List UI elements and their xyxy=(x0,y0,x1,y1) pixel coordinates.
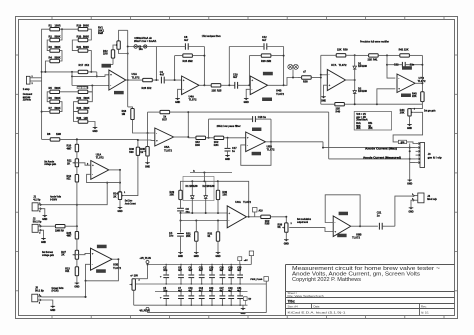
ground J5 xyxy=(50,304,55,312)
svg-text:10u: 10u xyxy=(163,270,168,272)
wire J2 pin2 to ground xyxy=(42,230,44,236)
svg-text:22K R41: 22K R41 xyxy=(368,59,379,62)
svg-text:+V8_PLUS: +V8_PLUS xyxy=(140,258,152,260)
svg-text:C22: C22 xyxy=(394,64,399,67)
capacitor C23 xyxy=(209,288,215,305)
resistor R23b input xyxy=(128,78,159,90)
svg-text:R26 2M2: R26 2M2 xyxy=(261,60,272,63)
text D1 label xyxy=(358,62,367,68)
ground cap bank xyxy=(241,305,246,315)
svg-text:+: + xyxy=(329,83,331,87)
wire bank2 top rail xyxy=(72,85,108,87)
svg-text:A10: A10 xyxy=(259,210,264,213)
svg-text:500K: 500K xyxy=(83,25,89,28)
wire U5A feedback right vertical xyxy=(187,111,189,138)
svg-text:Anode Current (Max): Anode Current (Max) xyxy=(365,148,397,151)
svg-text:Anode Current (Measured): Anode Current (Measured) xyxy=(363,156,401,159)
capacitor C26 xyxy=(220,265,226,285)
wire R43 to pot R44 xyxy=(410,102,423,109)
resistor R1 xyxy=(49,25,61,31)
svg-text:4u7: 4u7 xyxy=(160,74,165,77)
svg-text:1 amp: 1 amp xyxy=(23,88,30,91)
ground R14 xyxy=(117,200,122,214)
svg-text:File: Valve Testbench.sch: File: Valve Testbench.sch xyxy=(288,294,325,298)
diode D1 log xyxy=(191,181,195,213)
svg-text:+: + xyxy=(228,211,230,215)
resistor R23 xyxy=(77,107,90,113)
connector J6 current input xyxy=(26,76,41,85)
svg-text:+: + xyxy=(156,138,158,142)
resistor R16 xyxy=(122,109,135,120)
svg-text:GND: GND xyxy=(407,184,412,186)
svg-text:GND: GND xyxy=(117,211,122,213)
wire cap bank rail A xyxy=(148,264,252,265)
wire flag to RV5 top xyxy=(134,278,148,280)
ground R36 xyxy=(284,232,289,245)
wire divider to J1 line xyxy=(76,182,78,227)
capacitor C31 xyxy=(237,288,243,305)
svg-text:GND: GND xyxy=(407,128,412,130)
text J2 label xyxy=(33,218,42,224)
wire C21 to J4 xyxy=(395,196,415,226)
svg-text:1: 1 xyxy=(124,192,126,194)
text D2 label xyxy=(358,87,367,93)
wire bottom rail rectifier xyxy=(354,103,423,105)
power flag rail A xyxy=(249,251,253,265)
net flag 17Hz pair xyxy=(288,64,299,78)
resistor R22 xyxy=(77,97,90,103)
resistor R2 xyxy=(49,35,61,41)
capacitor C16 feedback xyxy=(209,116,272,122)
wire bank2 R7 to left rail xyxy=(42,111,50,113)
title block text xyxy=(288,266,441,314)
resistor R43 xyxy=(412,92,424,102)
svg-text:0-300V: 0-300V xyxy=(50,198,57,201)
wire R30 bottom xyxy=(217,200,219,213)
capacitor C10 xyxy=(233,73,249,88)
svg-text:GND: GND xyxy=(50,310,55,312)
potentiometer R11 set anode voltage gain xyxy=(67,152,79,167)
text set screen voltage gain xyxy=(42,251,54,257)
wire R36 wiper to U8B xyxy=(289,228,333,232)
power flag -V8_PLUS xyxy=(139,307,150,312)
wire bank1 R4 to bottom xyxy=(45,61,50,72)
resistor R24 feedback xyxy=(175,54,205,63)
op-amp U7B xyxy=(397,74,422,93)
svg-text:TL072: TL072 xyxy=(189,98,197,102)
svg-text:TL072: TL072 xyxy=(164,148,172,152)
svg-text:-: - xyxy=(334,220,335,224)
resistor R9 xyxy=(42,225,77,233)
darkbox U3B above xyxy=(97,245,107,249)
wire left column to C4 xyxy=(180,213,182,233)
wire RV1 bottom to rail xyxy=(119,49,128,53)
darkbox U4B above xyxy=(263,72,273,76)
svg-text:(0-150): (0-150) xyxy=(52,290,59,293)
svg-text:1N4148: 1N4148 xyxy=(358,65,367,68)
svg-text:GND: GND xyxy=(284,243,289,245)
svg-text:500K: 500K xyxy=(55,46,61,49)
svg-text:+5V: +5V xyxy=(244,260,248,262)
svg-text:Anode Current: Anode Current xyxy=(125,202,136,205)
svg-text:GND: GND xyxy=(241,313,246,315)
ground R32 xyxy=(215,241,220,258)
darkbox U4B below xyxy=(262,98,272,102)
resistor R35m xyxy=(261,215,287,226)
capacitor C21 xyxy=(377,212,395,230)
svg-text:20K: 20K xyxy=(400,112,405,115)
svg-text:C16 1u: C16 1u xyxy=(258,116,267,119)
wire stageA feedback right vertical xyxy=(203,47,205,87)
svg-text:U8A: U8A xyxy=(235,200,241,204)
svg-text:voltage gain: voltage gain xyxy=(44,163,56,166)
note box gm settings xyxy=(354,112,391,131)
power flag rail B xyxy=(250,277,268,285)
text U8B ref xyxy=(352,232,362,239)
capacitor C27 xyxy=(220,288,226,305)
wire pot R27 wiper to U3B xyxy=(73,253,91,254)
wire gm section top rail xyxy=(181,180,249,217)
svg-text:GND: GND xyxy=(145,166,150,168)
text anode volts range xyxy=(50,196,61,202)
darkbox U8B above xyxy=(339,212,348,216)
potentiometer R44 set gm gain xyxy=(400,108,416,116)
svg-text:PWR_FLAG: PWR_FLAG xyxy=(250,278,262,281)
svg-text:KiCad E.D.A. kicad (5.1.9)-1: KiCad E.D.A. kicad (5.1.9)-1 xyxy=(288,310,347,314)
text 20Hz low pass filter xyxy=(217,124,242,128)
wire stageB feedback right vertical xyxy=(283,47,285,87)
diode D2 xyxy=(353,80,357,104)
wire bank2 R22 right bracket xyxy=(88,92,93,102)
resistor R7 xyxy=(49,107,61,113)
svg-text:4u7: 4u7 xyxy=(228,269,233,272)
svg-text:20K: 20K xyxy=(186,235,191,238)
wire R33 R34 junction xyxy=(208,119,210,139)
capacitor C6 xyxy=(178,265,184,285)
wire U3B feedback xyxy=(85,258,120,282)
potentiometer RV1 anode cal xyxy=(114,41,120,49)
capacitor C6 xyxy=(177,200,190,214)
svg-text:20mV rms = 1mA/1: 20mV rms = 1mA/1 xyxy=(134,40,157,43)
op-amp U5A xyxy=(155,128,189,146)
svg-text:2K: 2K xyxy=(61,254,64,257)
svg-text:R38: R38 xyxy=(303,81,308,84)
wire bank1 left rail xyxy=(41,29,50,139)
wire U4B out to R38 xyxy=(284,78,298,86)
svg-text:R40: R40 xyxy=(336,111,341,114)
svg-text:4u7: 4u7 xyxy=(262,39,267,42)
op-amp U8A xyxy=(227,206,249,228)
darkbox U5B below xyxy=(252,152,261,156)
svg-text:GND: GND xyxy=(215,256,220,258)
text U8A ref xyxy=(235,200,251,204)
net flag C2 xyxy=(134,45,147,52)
wire J3 bottom pin to ground xyxy=(410,163,416,178)
svg-text:+: + xyxy=(160,296,162,300)
svg-text:TP: TP xyxy=(248,299,251,301)
wire anode current max xyxy=(323,147,416,149)
ground R44 xyxy=(407,116,412,130)
svg-text:22K: 22K xyxy=(412,95,417,98)
svg-text:Set gm gain: Set gm gain xyxy=(424,108,436,112)
resistor R6 xyxy=(49,97,61,103)
svg-text:-: - xyxy=(92,172,93,176)
wire stageA C8 branch vertical xyxy=(155,47,157,82)
svg-text:-: - xyxy=(156,131,157,135)
capacitor C10 xyxy=(188,288,194,305)
svg-text:R23: R23 xyxy=(77,107,82,110)
svg-text:220Vdc: 220Vdc xyxy=(23,99,32,102)
text U4A ref xyxy=(189,94,197,101)
wire diode rail junction xyxy=(354,54,356,81)
svg-text:TL072: TL072 xyxy=(418,79,426,83)
svg-text:100R: 100R xyxy=(55,25,61,28)
wire bank2 R26 to ground xyxy=(88,122,95,126)
wire U5A output to measured line xyxy=(188,112,328,159)
wire J1 pin1 xyxy=(42,182,109,205)
svg-text:+: + xyxy=(251,78,253,82)
resistor R34 xyxy=(209,136,228,147)
wire bank1 R3-R4 bracket xyxy=(60,51,63,61)
resistor R25 screen divider top xyxy=(67,226,79,239)
resistor R26f feedback xyxy=(249,54,283,63)
text U5A ref xyxy=(164,145,172,152)
capacitor C5 xyxy=(160,288,169,305)
svg-text:TL072: TL072 xyxy=(243,200,251,204)
svg-text:+: + xyxy=(160,275,162,279)
wire J5 pin1 xyxy=(41,296,86,298)
wire gm tap vertical xyxy=(203,173,205,182)
resistor R20 xyxy=(77,35,90,41)
op-amp U8B xyxy=(333,216,360,237)
wire bank1 R19-R20 bracket xyxy=(88,29,92,40)
potentiometer R26b set screen voltage gain xyxy=(61,239,78,259)
svg-text:2: 2 xyxy=(39,233,41,235)
wire bank2 feed from bank1 xyxy=(71,72,73,86)
text RV1 label xyxy=(98,27,105,36)
resistor R4 xyxy=(49,56,61,62)
wire R14 wiper rail xyxy=(124,155,138,195)
wire gm lower rail xyxy=(180,220,228,222)
resistor R29 xyxy=(170,190,183,199)
svg-text:GND: GND xyxy=(41,242,46,244)
svg-text:500K: 500K xyxy=(55,107,61,110)
wire bank1 R20-R21 bracket xyxy=(72,40,78,51)
wire U7B plus from bottom rail xyxy=(377,89,395,104)
wire R35m to pot xyxy=(285,216,287,223)
resistor R12 xyxy=(67,167,79,182)
text U1A ref xyxy=(132,72,140,79)
text U5B ref xyxy=(267,145,275,152)
svg-text:GND: GND xyxy=(175,102,180,104)
wire bank1 R1-R2 bracket xyxy=(60,29,63,40)
svg-text:2: 2 xyxy=(32,83,34,85)
svg-text:2: 2 xyxy=(39,303,41,305)
wire bank2 R22-R23 bracket left xyxy=(74,102,79,112)
power flag +V8_PLUS xyxy=(140,258,152,279)
connector J1 xyxy=(32,203,41,213)
darkbox U1A upper-left xyxy=(102,64,112,68)
darkbox U5B above xyxy=(252,128,261,132)
wire bank1 bottom rail xyxy=(42,71,97,73)
svg-text:gm & I o/p: gm & I o/p xyxy=(428,156,443,159)
svg-text:1M6: 1M6 xyxy=(56,133,61,136)
resistor R21 xyxy=(77,46,90,52)
ground U4B xyxy=(244,97,249,105)
text screen volts range xyxy=(52,287,64,293)
svg-text:Ia: Ia xyxy=(193,170,196,172)
svg-text:2: 2 xyxy=(291,223,293,225)
resistor R41 xyxy=(355,54,387,62)
text scale annotation xyxy=(134,37,157,43)
op-amp U4A xyxy=(182,76,205,95)
capacitor C17 xyxy=(225,138,238,154)
test point flag xyxy=(244,297,252,305)
text J3 label xyxy=(428,153,443,159)
svg-text:4u7: 4u7 xyxy=(178,269,183,272)
wire cap bank rail B xyxy=(152,283,266,284)
svg-text:4M7: 4M7 xyxy=(67,235,72,238)
wire U8B output xyxy=(360,225,378,227)
wire bank2 R23-R26 bracket left xyxy=(74,112,79,122)
svg-text:2K: 2K xyxy=(113,195,116,198)
svg-text:Size: A4: Size: A4 xyxy=(288,305,299,309)
svg-text:10u: 10u xyxy=(169,235,174,238)
resistor R5 xyxy=(49,87,61,93)
text 17Hz bandpass filters xyxy=(202,34,221,38)
potentiometer R36 modulation level xyxy=(278,223,293,232)
svg-text:4u7: 4u7 xyxy=(233,76,238,79)
wire U2A feedback xyxy=(87,174,120,182)
wire gm wiper routing xyxy=(393,112,423,142)
svg-text:+: + xyxy=(92,163,94,167)
svg-text:u7: u7 xyxy=(303,71,307,74)
wire U4A minus to ground xyxy=(178,89,182,96)
wire RV1 wiper to R12b xyxy=(113,45,115,50)
net stub rail A xyxy=(238,257,248,265)
wire U5B out to anode current wires xyxy=(322,142,324,149)
capacitor C28 xyxy=(228,265,234,285)
resistor R33 xyxy=(188,136,208,147)
svg-text:GND: GND xyxy=(244,102,249,104)
ground screen divider xyxy=(74,276,79,289)
wire R16 branch xyxy=(128,107,133,109)
wire RV5 bottom to rail D xyxy=(133,290,135,305)
wire U5B feedback xyxy=(241,142,271,166)
darkbox U8B below xyxy=(337,234,346,238)
wire J3 pin bus xyxy=(409,144,411,163)
svg-text:TL072: TL072 xyxy=(113,266,121,270)
resistor R32 xyxy=(208,221,220,242)
svg-text:10u: 10u xyxy=(163,291,168,293)
svg-text:500K: 500K xyxy=(84,107,90,110)
wire flag branch xyxy=(127,46,157,48)
darkbox U7B below xyxy=(401,94,411,98)
capacitor C20 xyxy=(209,265,215,285)
text U7B ref xyxy=(418,76,426,83)
svg-text:R42 22K: R42 22K xyxy=(399,48,409,51)
junction dots misc xyxy=(76,138,121,298)
wire cap bank rail C xyxy=(155,291,248,292)
diode D1 xyxy=(353,55,357,80)
resistor R36b xyxy=(129,147,139,155)
svg-text:TL072: TL072 xyxy=(96,156,104,160)
svg-text:1N4148: 1N4148 xyxy=(358,90,367,93)
wire R17 to tap xyxy=(96,72,98,78)
svg-text:4u7: 4u7 xyxy=(188,269,193,272)
svg-text:-: - xyxy=(183,87,184,91)
svg-text:1k: 1k xyxy=(140,151,143,154)
svg-text:20mV/mA: 20mV/mA xyxy=(356,119,368,122)
svg-text:GND: GND xyxy=(321,100,326,102)
svg-text:R39: R39 xyxy=(343,48,348,51)
svg-text:4M7: 4M7 xyxy=(67,147,72,150)
wire left rail to U7A inverting xyxy=(320,74,328,76)
svg-text:4u7: 4u7 xyxy=(209,269,214,272)
ground J3 xyxy=(407,178,412,186)
wire gm input label xyxy=(190,170,232,173)
wire stageB R26 branch vertical xyxy=(248,56,250,87)
text U4B ref xyxy=(276,89,284,96)
wire U7A plus to ground xyxy=(324,85,328,95)
text J6 label xyxy=(23,88,33,102)
diode D2 log xyxy=(204,181,208,213)
op-amp U4B xyxy=(250,76,283,95)
resistor R40 bottom rail xyxy=(321,103,355,114)
resistor R13 xyxy=(65,259,78,275)
capacitor C22 xyxy=(387,62,422,68)
svg-text:20Hz low pass filter: 20Hz low pass filter xyxy=(217,124,242,128)
svg-text:22K: 22K xyxy=(337,48,342,51)
capacitor C30 xyxy=(237,265,243,285)
svg-text:GND: GND xyxy=(408,211,413,213)
svg-text:20K: 20K xyxy=(356,127,361,130)
svg-text:911: 911 xyxy=(65,270,70,273)
svg-text:+: + xyxy=(247,136,249,140)
text U7A ref xyxy=(331,63,347,67)
text set modulation output level xyxy=(297,218,311,224)
svg-text:500K: 500K xyxy=(83,35,89,38)
svg-text:+: + xyxy=(183,78,185,82)
wire U3B feedback to J5 line xyxy=(85,281,87,297)
title block frame xyxy=(286,265,455,316)
resistor R25b interstage xyxy=(204,84,234,93)
capacitor C29 xyxy=(228,288,234,305)
darkbox U1A below xyxy=(114,91,124,94)
svg-text:R21: R21 xyxy=(77,46,82,49)
wire bank2 R6-R7 bracket xyxy=(60,102,63,112)
svg-text:+: + xyxy=(110,73,112,77)
wire U8B feedback box xyxy=(325,195,361,227)
svg-text:25K: 25K xyxy=(368,127,373,130)
wire J1 pin2 to ground xyxy=(42,209,45,214)
op-amp U1A xyxy=(109,70,128,90)
wire bank2 R18 right bracket xyxy=(88,86,93,92)
wire U4B minus to ground xyxy=(246,89,250,96)
svg-text:Date:: Date: xyxy=(314,305,321,309)
text set gm gain xyxy=(424,108,436,112)
op-amp U2A xyxy=(90,161,120,180)
wire J4 pin2 to ground xyxy=(411,200,414,206)
text U2A ref xyxy=(96,153,104,160)
svg-text:Rev:: Rev: xyxy=(421,305,427,309)
svg-text:13K: 13K xyxy=(222,194,227,197)
svg-text:500: 500 xyxy=(129,151,134,154)
wire bank2 R5-R6 bracket xyxy=(47,92,50,102)
svg-text:Copyright 2022 P. Matthews: Copyright 2022 P. Matthews xyxy=(292,277,362,283)
svg-text:+: + xyxy=(398,87,400,91)
svg-text:500K: 500K xyxy=(84,97,90,100)
